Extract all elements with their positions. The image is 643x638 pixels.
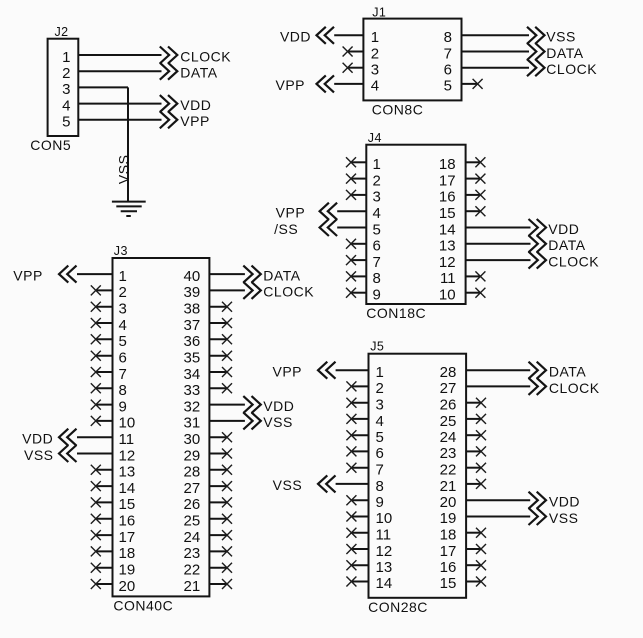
svg-text:8: 8	[444, 29, 452, 46]
svg-text:40: 40	[184, 268, 201, 285]
svg-text:VPP: VPP	[275, 77, 305, 93]
svg-text:26: 26	[184, 496, 201, 513]
svg-text:5: 5	[62, 114, 70, 131]
svg-text:9: 9	[373, 287, 381, 304]
svg-text:12: 12	[119, 447, 136, 464]
svg-text:6: 6	[373, 238, 381, 255]
svg-text:20: 20	[440, 494, 457, 511]
svg-text:22: 22	[440, 462, 457, 479]
svg-text:15: 15	[440, 575, 457, 592]
svg-text:18: 18	[439, 156, 456, 173]
svg-text:J3: J3	[114, 244, 128, 258]
svg-text:32: 32	[184, 398, 201, 415]
svg-text:14: 14	[376, 575, 393, 592]
svg-text:J5: J5	[370, 340, 384, 354]
svg-text:VSS: VSS	[549, 510, 579, 526]
svg-text:27: 27	[440, 380, 457, 397]
svg-text:12: 12	[439, 254, 456, 271]
svg-text:VSS: VSS	[116, 155, 132, 185]
svg-text:VDD: VDD	[549, 494, 580, 510]
svg-text:16: 16	[440, 559, 457, 576]
svg-text:11: 11	[376, 527, 392, 544]
svg-text:22: 22	[184, 562, 201, 579]
svg-text:38: 38	[184, 301, 201, 318]
svg-text:2: 2	[371, 45, 379, 62]
svg-text:19: 19	[440, 510, 457, 527]
svg-text:3: 3	[62, 81, 70, 98]
svg-text:13: 13	[439, 238, 456, 255]
svg-text:4: 4	[373, 205, 381, 222]
svg-text:/SS: /SS	[274, 221, 298, 237]
svg-text:VDD: VDD	[548, 221, 579, 237]
svg-text:17: 17	[119, 529, 136, 546]
svg-text:36: 36	[184, 333, 201, 350]
svg-text:4: 4	[371, 78, 379, 95]
svg-text:6: 6	[119, 350, 127, 367]
svg-text:12: 12	[376, 543, 393, 560]
svg-text:21: 21	[184, 578, 201, 595]
svg-text:24: 24	[440, 429, 457, 446]
svg-text:DATA: DATA	[548, 237, 585, 253]
svg-text:CLOCK: CLOCK	[180, 48, 231, 64]
svg-text:VSS: VSS	[546, 29, 576, 45]
svg-text:2: 2	[376, 380, 384, 397]
svg-text:8: 8	[119, 382, 127, 399]
svg-text:21: 21	[440, 478, 457, 495]
svg-text:J2: J2	[55, 25, 69, 39]
svg-text:13: 13	[376, 559, 393, 576]
svg-text:23: 23	[440, 445, 457, 462]
svg-text:VPP: VPP	[276, 205, 306, 221]
svg-text:VSS: VSS	[273, 477, 303, 493]
svg-text:1: 1	[119, 268, 127, 285]
svg-text:4: 4	[119, 317, 127, 334]
svg-text:DATA: DATA	[549, 364, 586, 380]
svg-text:3: 3	[371, 62, 379, 79]
svg-text:CLOCK: CLOCK	[263, 284, 314, 300]
svg-text:8: 8	[376, 478, 384, 495]
svg-text:14: 14	[119, 480, 136, 497]
svg-text:VPP: VPP	[13, 267, 43, 283]
svg-text:2: 2	[62, 65, 70, 82]
svg-text:CLOCK: CLOCK	[546, 61, 597, 77]
svg-text:17: 17	[439, 172, 456, 189]
svg-text:CON5: CON5	[30, 137, 71, 153]
svg-text:9: 9	[376, 494, 384, 511]
svg-text:13: 13	[119, 464, 136, 481]
svg-text:7: 7	[376, 462, 384, 479]
svg-text:5: 5	[373, 221, 381, 238]
svg-text:2: 2	[119, 284, 127, 301]
svg-text:26: 26	[440, 397, 457, 414]
svg-text:24: 24	[184, 529, 201, 546]
svg-text:CON8C: CON8C	[372, 102, 424, 118]
svg-text:34: 34	[184, 366, 201, 383]
svg-text:31: 31	[184, 415, 201, 432]
svg-text:J1: J1	[372, 6, 386, 20]
svg-text:DATA: DATA	[180, 65, 217, 81]
svg-text:VDD: VDD	[280, 29, 311, 45]
svg-text:16: 16	[119, 513, 136, 530]
svg-text:18: 18	[440, 527, 457, 544]
svg-text:5: 5	[119, 333, 127, 350]
svg-text:8: 8	[373, 270, 381, 287]
svg-text:11: 11	[440, 270, 456, 287]
svg-text:CLOCK: CLOCK	[548, 253, 599, 269]
svg-text:30: 30	[184, 431, 201, 448]
svg-text:27: 27	[184, 480, 201, 497]
svg-text:25: 25	[440, 413, 457, 430]
svg-text:39: 39	[184, 284, 201, 301]
svg-text:4: 4	[376, 413, 384, 430]
svg-text:VDD: VDD	[22, 431, 53, 447]
svg-text:35: 35	[184, 350, 201, 367]
svg-text:18: 18	[119, 545, 136, 562]
svg-text:16: 16	[439, 189, 456, 206]
svg-text:15: 15	[119, 496, 136, 513]
svg-text:VDD: VDD	[180, 97, 211, 113]
svg-text:29: 29	[184, 447, 201, 464]
svg-text:VPP: VPP	[180, 113, 210, 129]
svg-text:20: 20	[119, 578, 136, 595]
svg-text:23: 23	[184, 545, 201, 562]
svg-text:15: 15	[439, 205, 456, 222]
svg-text:VDD: VDD	[263, 398, 294, 414]
svg-text:6: 6	[376, 445, 384, 462]
svg-text:5: 5	[376, 429, 384, 446]
svg-text:VPP: VPP	[272, 364, 302, 380]
svg-text:DATA: DATA	[263, 267, 300, 283]
svg-text:37: 37	[184, 317, 201, 334]
svg-text:10: 10	[119, 415, 136, 432]
svg-text:19: 19	[119, 562, 136, 579]
svg-text:10: 10	[376, 510, 393, 527]
svg-text:7: 7	[119, 366, 127, 383]
svg-text:33: 33	[184, 382, 201, 399]
svg-text:1: 1	[371, 29, 379, 46]
svg-text:CLOCK: CLOCK	[549, 380, 600, 396]
svg-text:6: 6	[444, 62, 452, 79]
svg-text:11: 11	[119, 431, 135, 448]
svg-text:J4: J4	[368, 131, 382, 145]
svg-text:17: 17	[440, 543, 457, 560]
svg-text:28: 28	[440, 364, 457, 381]
svg-text:5: 5	[444, 78, 452, 95]
svg-text:1: 1	[373, 156, 381, 173]
svg-text:4: 4	[62, 97, 70, 114]
svg-text:25: 25	[184, 513, 201, 530]
svg-text:14: 14	[439, 221, 456, 238]
svg-text:9: 9	[119, 398, 127, 415]
svg-text:7: 7	[444, 45, 452, 62]
svg-text:2: 2	[373, 172, 381, 189]
svg-text:CON40C: CON40C	[113, 598, 173, 614]
svg-text:10: 10	[439, 287, 456, 304]
svg-text:3: 3	[373, 189, 381, 206]
svg-text:28: 28	[184, 464, 201, 481]
svg-text:1: 1	[376, 364, 384, 381]
svg-text:CON18C: CON18C	[366, 305, 426, 321]
svg-text:CON28C: CON28C	[368, 599, 428, 615]
svg-text:VSS: VSS	[24, 447, 54, 463]
svg-text:3: 3	[376, 397, 384, 414]
svg-text:VSS: VSS	[263, 414, 293, 430]
svg-text:1: 1	[62, 49, 70, 66]
svg-text:7: 7	[373, 254, 381, 271]
svg-text:3: 3	[119, 301, 127, 318]
svg-text:DATA: DATA	[546, 45, 583, 61]
